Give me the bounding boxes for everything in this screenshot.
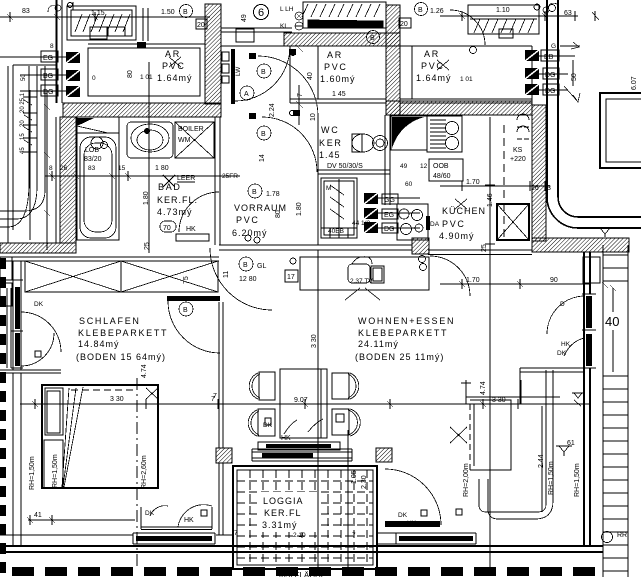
svg-text:12 80: 12 80 xyxy=(239,276,257,283)
circled A vorraum xyxy=(240,86,254,100)
svg-text:20: 20 xyxy=(197,22,205,29)
dim ticks stair xyxy=(564,60,580,102)
schlafen-wohnen partition wall xyxy=(219,302,223,448)
svg-text:63: 63 xyxy=(564,10,572,17)
radiator mark east corridor xyxy=(597,228,613,237)
sideboard under table xyxy=(258,442,340,450)
circled B terrace xyxy=(367,31,380,44)
bathtub niche xyxy=(77,117,119,240)
svg-text:DV 50/30/S: DV 50/30/S xyxy=(327,163,363,170)
circled 6 xyxy=(254,5,269,20)
stair treads upper xyxy=(603,255,628,281)
left edge dim texts xyxy=(20,74,27,154)
loggia door swing xyxy=(385,469,441,525)
svg-text:1.78: 1.78 xyxy=(266,191,280,198)
svg-text:7: 7 xyxy=(297,93,304,97)
kitchen fridge dashed xyxy=(503,125,505,238)
svg-text:RH=1,50m: RH=1,50m xyxy=(548,461,555,495)
vorraum-wohnen door swing xyxy=(210,248,272,310)
terrace top-right railing xyxy=(468,4,556,54)
X mark ar left label xyxy=(169,57,181,67)
svg-text:KER.FL: KER.FL xyxy=(264,508,302,518)
svg-text:RR: RR xyxy=(617,532,627,539)
svg-text:60: 60 xyxy=(405,181,413,188)
vorraum electrical squares xyxy=(364,193,420,233)
svg-text:AR: AR xyxy=(327,50,343,60)
svg-text:B: B xyxy=(252,189,257,196)
svg-text:40EB: 40EB xyxy=(328,228,344,235)
wall band vertical between AR rooms xyxy=(386,5,400,115)
schlafen door leaf xyxy=(167,296,220,301)
svg-text:B: B xyxy=(261,131,266,138)
svg-text:BG: BG xyxy=(43,73,53,80)
svg-text:20: 20 xyxy=(400,21,408,28)
wall line left of window xyxy=(0,533,396,544)
vorraum door posts xyxy=(249,53,256,59)
stair circle RR xyxy=(602,532,613,543)
X mark ar right label xyxy=(437,60,449,70)
corridor south wall top xyxy=(221,28,292,46)
wall pier kitchen-living xyxy=(412,238,429,254)
bed xyxy=(42,385,158,488)
svg-text:8: 8 xyxy=(50,43,54,50)
svg-text:B: B xyxy=(183,9,188,16)
apartment east wall double line xyxy=(584,252,590,545)
east wall window frame xyxy=(582,294,596,368)
svg-text:PVC: PVC xyxy=(421,61,445,71)
kitchen OOB label box xyxy=(429,159,463,181)
svg-text:WC: WC xyxy=(321,125,339,135)
svg-text:11: 11 xyxy=(223,271,230,278)
wall pier loggia west xyxy=(216,448,232,463)
wall band horizontal top of vorraum xyxy=(284,33,400,46)
parapet J-curve living east inner xyxy=(479,370,546,512)
labels electrical vorraum xyxy=(382,194,398,204)
svg-text:50: 50 xyxy=(21,74,27,81)
wardrobe top wall xyxy=(0,257,219,261)
svg-text:1.45: 1.45 xyxy=(319,150,341,160)
wc-kitchen partition xyxy=(385,115,390,205)
svg-text:DK: DK xyxy=(263,422,273,429)
svg-text:8: 8 xyxy=(49,165,53,172)
schlafen-loggia wall lower xyxy=(219,463,223,535)
dim vertical line bad xyxy=(148,62,150,253)
svg-text:B: B xyxy=(243,262,248,269)
schlafen west window glazing xyxy=(15,287,20,329)
circled B vorraum2 xyxy=(257,126,271,140)
section dash line schlafen xyxy=(136,378,138,568)
svg-text:40: 40 xyxy=(605,314,619,329)
dim line vertical loggia xyxy=(343,430,353,570)
entrance door leaf xyxy=(231,49,235,104)
svg-text:1.10: 1.10 xyxy=(496,7,510,14)
svg-text:RH=1,50m: RH=1,50m xyxy=(52,454,59,488)
bad door swing xyxy=(179,192,219,232)
svg-text:80: 80 xyxy=(275,210,282,218)
svg-text:+220: +220 xyxy=(510,156,526,163)
svg-text:1 80: 1 80 xyxy=(155,165,169,172)
svg-text:GG: GG xyxy=(384,197,395,204)
svg-text:RH=2,60m: RH=2,60m xyxy=(141,455,148,489)
svg-text:41: 41 xyxy=(34,512,42,519)
neighbor parapet rounded corners top-left xyxy=(0,66,45,211)
svg-text:26: 26 xyxy=(60,165,68,172)
dim line kitchen bottom xyxy=(440,279,590,289)
bad radiator xyxy=(176,234,209,241)
svg-text:M: M xyxy=(326,185,331,192)
svg-text:WOHNEN+ESSEN: WOHNEN+ESSEN xyxy=(358,316,455,326)
kitchen-wohnen wall segment xyxy=(428,250,532,255)
svg-text:1.64mý: 1.64mý xyxy=(416,73,452,83)
schlafen south window glazing xyxy=(136,536,212,541)
svg-text:HK: HK xyxy=(184,517,194,524)
svg-text:B: B xyxy=(261,69,266,76)
wall pier loggia east xyxy=(376,448,392,462)
svg-text:3: 3 xyxy=(547,185,551,192)
svg-text:DG: DG xyxy=(384,226,395,233)
svg-text:1 01: 1 01 xyxy=(140,74,153,81)
svg-text:RH=1,50m: RH=1,50m xyxy=(574,463,581,497)
svg-text:10: 10 xyxy=(310,113,317,121)
dining table xyxy=(280,369,327,438)
svg-text:75: 75 xyxy=(183,276,190,284)
svg-text:1.70: 1.70 xyxy=(466,277,480,284)
svg-text:PVC: PVC xyxy=(324,62,348,72)
svg-text:[05] FLÄCHE: [05] FLÄCHE xyxy=(279,571,326,577)
svg-text:83: 83 xyxy=(22,8,30,15)
svg-text:DK: DK xyxy=(145,510,155,517)
svg-text:PVC: PVC xyxy=(236,215,260,225)
svg-text:EB: EB xyxy=(544,54,554,61)
circled B top-left xyxy=(180,5,193,18)
svg-text:LOGGIA: LOGGIA xyxy=(263,496,304,506)
svg-text:2.24: 2.24 xyxy=(269,103,276,117)
svg-text:LEER: LEER xyxy=(177,175,195,182)
svg-text:1.64mý: 1.64mý xyxy=(157,73,193,83)
svg-text:KER: KER xyxy=(319,138,343,148)
X mark wohnen xyxy=(450,427,467,443)
kitchen stove burners xyxy=(397,204,428,240)
svg-text:AR: AR xyxy=(165,49,181,59)
svg-text:1.80: 1.80 xyxy=(143,191,150,205)
radiator mark wohnen south xyxy=(556,446,572,456)
svg-text:1.50: 1.50 xyxy=(161,9,175,16)
svg-text:L LH: L LH xyxy=(280,6,294,13)
ar left room outline xyxy=(88,48,200,96)
svg-text:0: 0 xyxy=(92,75,96,82)
svg-text:1.26: 1.26 xyxy=(430,8,444,15)
svg-text:4.90mý: 4.90mý xyxy=(439,231,475,241)
boxed 17 xyxy=(285,270,298,282)
svg-text:PVC: PVC xyxy=(162,61,186,71)
svg-text:LW: LW xyxy=(235,66,242,76)
svg-text:PVC: PVC xyxy=(442,219,466,229)
dim hook top-left xyxy=(48,6,56,12)
bottom dashed border xyxy=(12,567,595,576)
chair ne xyxy=(332,373,349,399)
svg-text:83/20: 83/20 xyxy=(84,156,102,163)
wall band horizontal top of bad xyxy=(63,103,221,117)
dim line vertical right xyxy=(485,117,495,570)
svg-text:49: 49 xyxy=(241,14,248,22)
svg-text:AR: AR xyxy=(424,49,440,59)
svg-text:80: 80 xyxy=(127,70,134,78)
svg-text:DK: DK xyxy=(398,512,408,519)
svg-text:LOB: LOB xyxy=(85,147,99,154)
dim line vertical center xyxy=(317,250,319,572)
dim line main horizontal xyxy=(20,399,590,409)
svg-text:DG: DG xyxy=(43,89,54,96)
wall band horizontal below corridor corner xyxy=(532,238,629,252)
vorraum cabinet xyxy=(321,178,357,238)
bed X mark xyxy=(146,388,158,399)
svg-text:B: B xyxy=(418,7,423,14)
svg-text:KLEBEPARKETT: KLEBEPARKETT xyxy=(358,328,448,338)
kitchen corner counter black wedge xyxy=(391,116,427,150)
dim line bed xyxy=(27,515,135,525)
shaft with X kitchen xyxy=(497,204,529,240)
wohnen east door swing xyxy=(547,296,585,334)
svg-text:6.07: 6.07 xyxy=(631,76,638,90)
svg-text:KER.FL.: KER.FL. xyxy=(157,195,198,205)
svg-text:7: 7 xyxy=(213,393,217,400)
svg-text:1.05: 1.05 xyxy=(351,470,358,484)
svg-text:KÜCHEN: KÜCHEN xyxy=(442,206,486,216)
entrance door frame box xyxy=(236,29,254,42)
svg-text:HK: HK xyxy=(186,226,196,233)
dim tick far right xyxy=(560,11,599,49)
svg-text:EG: EG xyxy=(43,55,53,62)
svg-text:2.30: 2.30 xyxy=(361,475,368,489)
svg-text:2 10: 2 10 xyxy=(293,532,306,539)
svg-text:4.74: 4.74 xyxy=(480,381,487,395)
wc south wall xyxy=(318,170,390,174)
bottom wall double line xyxy=(0,546,603,552)
svg-text:B: B xyxy=(183,307,188,314)
svg-text:49: 49 xyxy=(400,163,408,170)
svg-text:OOB: OOB xyxy=(433,163,449,170)
loggia door leaf xyxy=(385,521,440,527)
chair se xyxy=(332,409,349,435)
svg-text:KLEBEPARKETT: KLEBEPARKETT xyxy=(78,328,168,338)
svg-text:20 25 1: 20 25 1 xyxy=(20,92,26,113)
svg-text:83: 83 xyxy=(88,165,96,172)
loggia tile grid xyxy=(237,470,373,565)
svg-text:1.60mý: 1.60mý xyxy=(320,74,356,84)
svg-text:HK: HK xyxy=(407,520,417,527)
svg-text:4.73mý: 4.73mý xyxy=(157,207,193,217)
kitchen KL radiator marks xyxy=(517,114,529,139)
svg-text:B: B xyxy=(370,35,375,42)
svg-text:(BODEN 25 11mý): (BODEN 25 11mý) xyxy=(355,352,444,362)
boxed 20 left xyxy=(196,19,207,29)
boiler WM box xyxy=(175,122,214,158)
svg-text:1.46: 1.46 xyxy=(487,193,494,207)
neighbor wall line xyxy=(0,370,61,373)
elevator core rect xyxy=(600,93,641,168)
parapet rect RH2.00 xyxy=(470,400,511,470)
svg-text:KL: KL xyxy=(280,23,288,30)
vorraum-wohnen wall xyxy=(219,245,412,250)
circled B vorraum3 xyxy=(248,184,262,198)
schlafen south window swing arcs xyxy=(141,505,212,530)
stair top small rects xyxy=(583,257,600,283)
dim line top-right xyxy=(440,11,578,21)
wall band horizontal top of kitchen xyxy=(386,101,532,115)
vorraum upper door swing xyxy=(258,56,318,116)
loggia label backing xyxy=(258,492,320,532)
svg-text:1.15: 1.15 xyxy=(91,10,105,17)
svg-text:48/60: 48/60 xyxy=(433,173,451,180)
svg-text:DK: DK xyxy=(34,301,44,308)
svg-text:D: D xyxy=(560,301,565,308)
schlafen window swings xyxy=(21,312,61,366)
svg-text:RH=1,50m: RH=1,50m xyxy=(29,456,36,490)
svg-text:HK: HK xyxy=(561,341,571,348)
boxed 20 xyxy=(399,18,411,28)
svg-text:24.11mý: 24.11mý xyxy=(358,339,399,349)
wall band vertical east of kitchen xyxy=(532,105,546,241)
svg-text:RH=2,00m: RH=2,00m xyxy=(463,463,470,497)
wc west wall xyxy=(317,115,319,245)
svg-text:44 1/2: 44 1/2 xyxy=(352,220,370,227)
wohnen south window glazing xyxy=(399,536,473,541)
entrance door swing xyxy=(235,46,290,101)
svg-text:BOILER: BOILER xyxy=(178,126,204,133)
circled 70 bad xyxy=(160,221,176,232)
wall lines top-left vertical pair xyxy=(56,0,62,243)
svg-text:6: 6 xyxy=(258,7,264,19)
dim line kitchen top xyxy=(440,181,550,191)
svg-text:45: 45 xyxy=(20,147,26,154)
svg-text:G: G xyxy=(551,43,556,50)
wc toilet xyxy=(352,134,374,152)
svg-text:20: 20 xyxy=(20,120,26,127)
svg-text:WM: WM xyxy=(178,137,191,144)
terrace division line xyxy=(520,368,584,404)
circled B schlafen xyxy=(179,302,193,316)
door swing hints xyxy=(284,419,323,434)
svg-text:1.80: 1.80 xyxy=(296,202,303,216)
svg-text:KS: KS xyxy=(513,147,523,154)
wall band vertical entry-left xyxy=(205,4,221,104)
svg-text:17: 17 xyxy=(287,274,295,281)
dim line 4.74 right vertical xyxy=(461,380,471,404)
parapet J-curve living east outer xyxy=(488,370,553,519)
svg-text:7: 7 xyxy=(352,532,356,539)
svg-text:61: 61 xyxy=(567,440,575,447)
loggia outer box xyxy=(233,466,377,569)
loggia window glazing xyxy=(262,453,313,458)
kitchen sink drainer xyxy=(427,116,462,152)
bad-vorraum partition xyxy=(215,117,220,245)
ar right door swing xyxy=(450,10,485,45)
entrance door jamb rects xyxy=(222,52,229,61)
ar right room outline xyxy=(400,46,532,103)
tv sideboard xyxy=(300,257,429,290)
ar rooms floor lines xyxy=(221,46,386,103)
svg-text:12: 12 xyxy=(420,163,428,170)
svg-text:DA: DA xyxy=(430,221,440,228)
dim hook top-right xyxy=(548,3,557,8)
svg-text:15: 15 xyxy=(20,133,26,140)
chair sw xyxy=(258,409,275,436)
svg-text:4.74: 4.74 xyxy=(141,364,148,378)
terrace left side wall xyxy=(143,8,148,41)
wohnen south window frame xyxy=(396,533,476,544)
svg-text:HK: HK xyxy=(281,435,291,442)
svg-text:15: 15 xyxy=(118,165,126,172)
svg-text:BAD: BAD xyxy=(158,182,182,192)
corridor wall inner line with rounded corner xyxy=(558,0,641,217)
schlafen south window frame xyxy=(133,533,215,544)
svg-text:25: 25 xyxy=(144,242,151,250)
svg-text:14.84mý: 14.84mý xyxy=(78,339,120,349)
bathtub xyxy=(80,137,116,238)
WALLS-HATCH xyxy=(0,4,629,463)
neighbor dashed edge column xyxy=(0,258,6,573)
circled B top-right xyxy=(415,3,428,16)
svg-text:26: 26 xyxy=(531,185,539,192)
schlafen door swing xyxy=(168,301,220,353)
dim line top-left xyxy=(0,12,210,22)
loggia window frame xyxy=(252,449,352,461)
svg-text:GL: GL xyxy=(257,263,266,270)
svg-text:9.07: 9.07 xyxy=(294,397,308,404)
svg-text:A: A xyxy=(244,91,249,98)
svg-text:SCHLAFEN: SCHLAFEN xyxy=(79,316,141,326)
svg-text:7: 7 xyxy=(234,530,238,537)
dim line bad xyxy=(45,171,240,181)
svg-text:3 30: 3 30 xyxy=(311,334,318,348)
svg-text:50: 50 xyxy=(571,73,578,81)
svg-text:DG: DG xyxy=(545,72,556,79)
svg-text:90: 90 xyxy=(550,277,558,284)
svg-text:25: 25 xyxy=(481,244,488,252)
vorraum lower door swing xyxy=(262,117,317,172)
wardrobe with X xyxy=(25,261,218,292)
svg-text:25FR: 25FR xyxy=(222,173,238,180)
svg-text:1 45: 1 45 xyxy=(332,91,346,98)
svg-text:2.37 TV: 2.37 TV xyxy=(350,278,373,285)
svg-text:6.20mý: 6.20mý xyxy=(232,228,268,238)
corridor wall outer line with rounded corner xyxy=(547,0,641,228)
svg-text:70: 70 xyxy=(163,225,171,232)
svg-text:1 01: 1 01 xyxy=(460,76,473,83)
dim line 3.30 right xyxy=(466,380,560,404)
svg-text:14: 14 xyxy=(259,154,266,162)
svg-text:(BODEN 15 64mý): (BODEN 15 64mý) xyxy=(76,352,166,362)
terrace top-center railing xyxy=(302,2,386,28)
right electrical squares xyxy=(525,50,575,95)
svg-text:3 30: 3 30 xyxy=(110,396,124,403)
wall band vertical west exterior xyxy=(60,117,76,243)
chair nw xyxy=(259,372,275,400)
wall band horizontal southwest xyxy=(0,243,76,253)
stair treads lower xyxy=(603,376,628,571)
svg-text:1.70: 1.70 xyxy=(466,179,480,186)
stair stringers xyxy=(603,245,628,577)
circled B vorraum1 xyxy=(257,64,271,78)
svg-text:EG: EG xyxy=(384,212,394,219)
left electrical squares xyxy=(0,51,80,97)
X mark kuechen label xyxy=(455,199,467,209)
neighbor window rects west xyxy=(0,257,12,280)
svg-text:DG: DG xyxy=(545,88,556,95)
terrace top-left railing xyxy=(67,2,136,40)
X mark bad leer xyxy=(163,175,175,187)
schlafen west window frame xyxy=(11,261,23,546)
